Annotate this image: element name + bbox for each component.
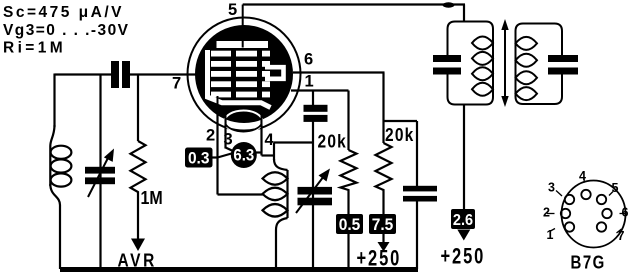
- svg-text:6.3: 6.3: [233, 147, 254, 165]
- svg-text:1: 1: [305, 73, 314, 91]
- svg-text:5: 5: [228, 1, 237, 19]
- svg-text:7.5: 7.5: [372, 215, 394, 234]
- svg-text:+250: +250: [441, 244, 486, 269]
- svg-text:6: 6: [304, 51, 313, 69]
- svg-text:2.6: 2.6: [453, 211, 473, 229]
- svg-text:AVR: AVR: [118, 250, 157, 271]
- svg-text:4: 4: [265, 131, 275, 149]
- svg-text:2: 2: [543, 206, 550, 220]
- svg-text:+250: +250: [357, 246, 402, 271]
- svg-text:3: 3: [548, 181, 555, 195]
- svg-text:1: 1: [547, 228, 554, 242]
- svg-text:Sc=475 μA/V: Sc=475 μA/V: [3, 4, 124, 21]
- svg-text:6: 6: [622, 206, 629, 220]
- svg-text:0.5: 0.5: [339, 215, 361, 234]
- svg-text:20k: 20k: [318, 131, 347, 152]
- svg-text:B7G: B7G: [571, 252, 606, 273]
- svg-text:20k: 20k: [385, 125, 414, 146]
- svg-text:3: 3: [224, 131, 233, 149]
- svg-text:2: 2: [206, 127, 215, 145]
- svg-text:4: 4: [579, 169, 586, 183]
- svg-text:0.3: 0.3: [188, 149, 210, 168]
- svg-text:1M: 1M: [141, 187, 163, 208]
- svg-text:Vg3=0 . . .-30V: Vg3=0 . . .-30V: [3, 22, 129, 39]
- svg-text:7: 7: [618, 229, 625, 243]
- svg-text:7: 7: [172, 75, 181, 93]
- svg-text:Ri=1M: Ri=1M: [3, 40, 66, 57]
- svg-text:5: 5: [612, 181, 619, 195]
